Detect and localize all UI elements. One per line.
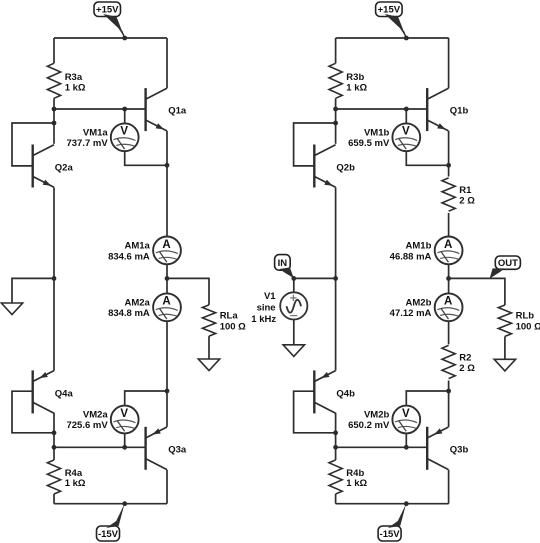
svg-text:+15V: +15V [96, 5, 119, 16]
svg-text:1 kΩ: 1 kΩ [346, 478, 367, 489]
svg-text:Q1a: Q1a [168, 106, 187, 117]
svg-text:1 kΩ: 1 kΩ [346, 82, 367, 93]
svg-text:VM1b: VM1b [364, 128, 390, 139]
svg-text:725.6 mV: 725.6 mV [66, 420, 108, 431]
svg-text:R2: R2 [459, 352, 471, 363]
svg-text:VM1a: VM1a [83, 128, 109, 139]
svg-text:Q4a: Q4a [55, 389, 74, 400]
svg-text:Q3b: Q3b [450, 444, 469, 455]
svg-text:V: V [120, 408, 128, 420]
svg-text:Q1b: Q1b [450, 106, 469, 117]
svg-text:V: V [402, 126, 410, 138]
svg-text:AM2a: AM2a [124, 297, 150, 308]
svg-text:V: V [120, 126, 128, 138]
svg-text:659.5 mV: 659.5 mV [348, 138, 390, 149]
svg-text:A: A [162, 296, 170, 308]
svg-text:IN: IN [278, 258, 288, 269]
svg-text:VM2b: VM2b [364, 410, 390, 421]
svg-text:100 Ω: 100 Ω [516, 321, 540, 332]
svg-text:834.6 mA: 834.6 mA [108, 251, 150, 262]
svg-text:-15V: -15V [98, 529, 119, 540]
svg-text:+15V: +15V [378, 5, 401, 16]
svg-text:OUT: OUT [498, 258, 518, 269]
svg-text:RLb: RLb [516, 311, 535, 322]
svg-text:A: A [162, 239, 170, 251]
svg-text:-15V: -15V [380, 529, 401, 540]
svg-text:R4b: R4b [346, 468, 364, 479]
svg-text:834.8 mA: 834.8 mA [108, 308, 150, 319]
svg-text:VM2a: VM2a [83, 410, 109, 421]
svg-text:47.12 mA: 47.12 mA [390, 308, 432, 319]
svg-text:737.7 mV: 737.7 mV [66, 138, 108, 149]
svg-text:R4a: R4a [65, 468, 83, 479]
svg-text:V: V [402, 408, 410, 420]
svg-text:Q2b: Q2b [336, 162, 355, 173]
svg-text:100 Ω: 100 Ω [220, 321, 246, 332]
svg-text:2 Ω: 2 Ω [459, 196, 475, 207]
svg-text:46.88 mA: 46.88 mA [390, 251, 432, 262]
svg-text:2 Ω: 2 Ω [459, 363, 475, 374]
svg-text:sine: sine [257, 303, 276, 314]
svg-text:Q4b: Q4b [336, 389, 355, 400]
svg-text:A: A [444, 239, 452, 251]
svg-text:R3b: R3b [346, 72, 364, 83]
svg-text:AM1a: AM1a [124, 241, 150, 252]
svg-text:V1: V1 [264, 291, 276, 302]
svg-text:R3a: R3a [65, 72, 83, 83]
svg-text:RLa: RLa [220, 311, 239, 322]
svg-text:R1: R1 [459, 185, 472, 196]
svg-text:AM1b: AM1b [406, 241, 432, 252]
svg-text:1 kΩ: 1 kΩ [65, 82, 86, 93]
svg-text:650.2 mV: 650.2 mV [348, 420, 390, 431]
svg-text:Q2a: Q2a [55, 162, 74, 173]
svg-text:AM2b: AM2b [406, 297, 432, 308]
svg-text:1 kHz: 1 kHz [251, 314, 276, 325]
svg-text:1 kΩ: 1 kΩ [65, 478, 86, 489]
svg-text:Q3a: Q3a [168, 444, 187, 455]
svg-text:A: A [444, 296, 452, 308]
